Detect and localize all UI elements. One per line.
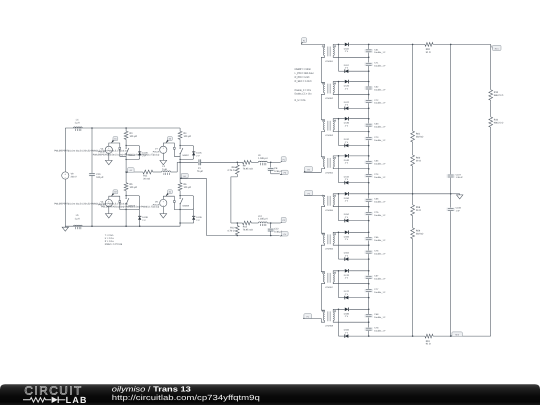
transformer T1 [322,46,336,63]
switch M6697 (upper cell) [180,146,194,160]
switch M6646 (upper cell) [126,146,140,160]
capacitor C10 [89,128,104,226]
diode D112 [339,64,350,73]
svg-text:Double_1 F: Double_1 F [374,163,386,166]
svg-text:R59: R59 [416,229,421,232]
svg-text:1 µH: 1 µH [75,122,80,125]
wire secondary top [333,194,345,197]
svg-text:R92: R92 [426,48,431,51]
svg-text:S3: S3 [114,191,116,194]
svg-text:2 V: 2 V [345,238,349,241]
wire driver to gate [109,196,126,209]
svg-text:Double_1 F: Double_1 F [374,201,386,204]
ground driver [105,153,112,164]
svg-text:NSMP = 2.80m: NSMP = 2.80m [295,68,311,71]
wire diode to bus lower [348,220,368,222]
transformer T7 [322,272,336,289]
svg-text:D140: D140 [344,159,350,162]
svg-text:P3: P3 [282,219,284,222]
gate driver source V8 [153,199,167,207]
svg-text:100 µO: 100 µO [130,186,138,189]
svg-text:LTMR57: LTMR57 [325,286,334,289]
wire bottom rail [369,335,425,337]
transformer T3 [322,120,336,137]
capacitor C75 [365,211,387,217]
switch M6698 (lower cell) [180,196,194,210]
svg-text:76 µF: 76 µF [197,170,204,173]
resistor R60 [411,155,421,166]
svg-text:D170: D170 [344,274,350,277]
wire node X down [338,156,340,183]
svg-text:2 V: 2 V [196,219,200,222]
wire driver to gate [163,143,180,156]
svg-text:P4: P4 [307,315,309,318]
node bridge output B [179,162,181,164]
wire T3-T4 primary chain [321,130,324,159]
wire secondary bottom [333,205,369,207]
flag label PRI2A [281,217,287,223]
svg-text:LTMR52: LTMR52 [325,97,334,100]
filter cap bus [450,44,452,336]
wire driver to gate [109,143,126,156]
wire secondary bottom [333,93,369,95]
capacitor C72 [365,99,387,105]
resistor R12 shunt [228,223,240,236]
wire top rail [369,43,425,45]
ground driver [160,207,167,218]
svg-text:100 µF: 100 µF [96,176,104,179]
wire leg B to lower net return [180,179,237,236]
output sense line [490,44,492,336]
svg-text:2 V: 2 V [345,200,349,203]
svg-text:N_S = 10%: N_S = 10% [295,99,307,102]
svg-text:Double_1 F: Double_1 F [374,329,386,332]
wire diode to bus lower [348,182,368,184]
svg-text:76.95 mO: 76.95 mO [243,168,253,171]
resistor R59 [411,228,424,239]
svg-text:Double_1 F: Double_1 F [374,51,386,54]
diode D142 [339,175,350,184]
svg-text:2 V: 2 V [142,219,146,222]
resistor R91 [425,334,433,345]
bus capacitor stack vertical [368,44,370,336]
svg-text:2 V: 2 V [345,277,349,280]
inductor L12 [258,215,268,226]
svg-text:P2: P2 [284,171,286,174]
resistor R33 [489,90,504,100]
wire diode to bus lower [348,297,368,299]
svg-text:Double_1 F: Double_1 F [374,278,386,281]
svg-text:D150: D150 [344,197,350,200]
svg-text:R91: R91 [426,340,431,343]
inductor L4 [74,118,83,131]
svg-text:RC1: RC1 [495,47,499,50]
svg-text:1 nF: 1 nF [456,210,461,213]
svg-text:29 O: 29 O [416,209,421,212]
svg-text:Double_1 F: Double_1 F [374,125,386,128]
wire secondary bottom [333,130,369,132]
resistor divider bus [412,44,414,336]
svg-text:Double_1 F: Double_1 F [374,176,386,179]
wire mid rail segment [179,159,181,182]
flag label RECT2 [451,332,463,337]
wire lower rail segment [179,210,181,227]
svg-text:C108: C108 [456,207,462,210]
svg-text:PWL(REPEAT(0,0.2m 10u,5 0.25m,: PWL(REPEAT(0,0.2m 10u,5 0.25m,5)+PWM(3,5… [54,202,128,205]
wire L12 to flag [267,222,280,224]
resistor R9 [243,160,253,170]
svg-text:5 µH: 5 µH [162,168,167,171]
flag label PRI1B input [304,167,313,173]
svg-text:2 V: 2 V [345,141,349,144]
svg-text:2 V: 2 V [345,293,349,296]
svg-text:Double_1 F: Double_1 F [374,239,386,242]
capacitor C76 [365,250,387,256]
wire node X down [338,119,340,146]
flag label RECT1 [491,44,501,50]
diode D10A [138,152,148,158]
resistor R92 [425,43,433,54]
svg-text:C10: C10 [96,173,101,176]
resistor R5 [124,183,137,196]
wire secondary bottom [333,321,369,323]
gate driver source V7 [153,146,167,154]
svg-text:D142: D142 [344,175,350,178]
svg-text:D180: D180 [344,312,350,315]
svg-text:76.95 mO: 76.95 mO [243,228,253,231]
resistor R58 [411,205,421,216]
ground driver [105,207,112,218]
capacitor C1 [197,159,204,173]
diode D162 [339,252,350,261]
wire T2-T3 primary chain [321,93,324,122]
svg-text:2 V: 2 V [345,315,349,318]
wire secondary top [333,271,345,274]
capacitor C66 [365,236,387,242]
svg-text:LTMR58: LTMR58 [325,325,334,328]
svg-text:P2: P2 [307,168,309,171]
svg-text:PWL(REPEAT(0,0.2m 10u,5 0.25m,: PWL(REPEAT(0,0.2m 10u,5 0.25m,5)+PWM(3,5… [54,149,128,152]
diode D170 [344,269,350,280]
svg-text:R58: R58 [416,206,421,209]
svg-text:D10D: D10D [196,216,202,219]
svg-text:R_SEC = 0.01O: R_SEC = 0.01O [295,80,312,83]
svg-text:LAB: LAB [66,395,88,405]
diode D120 [344,80,350,91]
svg-text:2 V: 2 V [345,162,349,165]
svg-text:240 V: 240 V [71,176,77,179]
wire lower net top [231,222,243,224]
svg-text:R33: R33 [494,91,499,94]
svg-text:Double_1 F: Double_1 F [374,316,386,319]
flag label OUTA on leg A [126,168,134,173]
svg-text:Double_1 F: Double_1 F [374,252,386,255]
wire diode to bus [349,270,369,272]
svg-text:0.76 O: 0.76 O [228,230,235,233]
svg-text:P1: P1 [282,159,284,162]
wire R9 to L9 [251,161,258,163]
svg-text:20 mO: 20 mO [143,178,150,181]
svg-text:M6697: M6697 [183,154,190,157]
capacitor C63 [365,123,387,129]
svg-text:LTMR55: LTMR55 [325,209,334,212]
svg-text:1 µH: 1 µH [75,217,80,220]
wire diode to bus lower [348,335,368,337]
svg-text:D110: D110 [344,47,350,50]
wire diode to bus [349,193,369,195]
wire diode to bus [349,118,369,120]
svg-text:C12: C12 [274,228,279,231]
diode D140 [344,154,350,165]
wire secondary top [333,309,345,312]
flag label S4 [166,190,173,197]
diode D130 [344,117,350,128]
svg-text:Double_CC = 10u: Double_CC = 10u [295,93,312,96]
svg-text:D112: D112 [344,64,350,67]
svg-text:100 µO: 100 µO [130,135,138,138]
svg-text:Double_1 F: Double_1 F [374,139,386,142]
svg-text:S4: S4 [169,191,171,194]
svg-text:RC2: RC2 [455,333,459,336]
flag label PRI2B input [303,314,311,319]
svg-text:PWL(REPEAT(0,0.5m)+PWM(3,0.5m): PWL(REPEAT(0,0.5m)+PWM(3,0.5m)+PWM(4,1 T… [101,206,159,209]
svg-text:D10B: D10B [142,216,148,219]
svg-text:91 O: 91 O [426,51,431,54]
wire mid rail segment [125,159,127,182]
wire diode to bus lower [348,107,368,109]
diode D160 [344,231,350,242]
svg-text:D152: D152 [344,213,350,216]
wire lower net bottom rail [237,235,279,237]
wire R8 to lower net [231,177,237,223]
wire top rail of bridge [65,127,180,129]
svg-text:PWL(R: PWL(R [153,150,160,153]
wire node X down [338,232,340,259]
svg-text:0.76 O: 0.76 O [228,169,235,172]
wire diode to bus [349,43,369,45]
resistor R4 [178,128,191,146]
wire diode to bus [349,155,369,157]
diode D10B [138,210,148,227]
svg-text:2 V: 2 V [196,154,200,157]
svg-text:282 kO: 282 kO [416,135,424,138]
svg-text:D122: D122 [344,101,350,104]
wire node X down [338,82,340,109]
flag label S1 [111,137,118,144]
svg-text:R61: R61 [416,132,421,135]
capacitor C8 shunt [267,162,283,174]
wire top rail right [433,43,491,45]
svg-text:2 V: 2 V [345,254,349,257]
capacitor C71 [365,62,387,68]
simulation parameter text block [105,234,123,246]
capacitor C12 shunt [267,223,283,236]
svg-text:100 µO: 100 µO [184,186,192,189]
wire T4 primary to flag [304,167,325,172]
transformer T6 [322,234,336,251]
resistor R34 [489,117,504,127]
svg-text:P3: P3 [308,192,310,195]
svg-text:29 O: 29 O [416,159,421,162]
svg-text:P1: P1 [303,39,305,42]
svg-text:R_PRI = 1mO: R_PRI = 1mO [295,76,310,79]
wire flag to T5 primary [304,195,325,196]
transformer T4 [322,157,336,174]
capacitor C68 [365,313,387,319]
svg-text:Double_C = 1Fa: Double_C = 1Fa [295,89,312,92]
diode D182 [339,329,350,338]
switch M6648 (lower cell) [126,196,140,210]
flag label PRI1B [280,170,288,175]
wire secondary top [333,82,345,85]
svg-text:S1: S1 [114,137,116,140]
resistor R11 [143,170,153,181]
logo schematic resistor-diode [23,397,65,403]
wire node X down [338,309,340,336]
wire secondary top [333,44,345,47]
wire flag to T1 primary [301,44,325,47]
svg-text:M6698: M6698 [183,204,190,207]
diode D110 [344,43,350,54]
svg-text:http://circuitlab.com/cp734yff: http://circuitlab.com/cp734yffqtm9q [112,393,260,402]
svg-text:2 V: 2 V [345,67,349,70]
wire node X down [338,194,340,221]
svg-text:D132: D132 [344,138,350,141]
svg-text:Double_1 F: Double_1 F [374,214,386,217]
transformer T5 [322,195,336,212]
capacitor C73 [365,136,387,142]
wire T7-T8 primary chain [321,282,324,312]
capacitor C61 [365,48,387,54]
diode D122 [339,101,350,110]
svg-text:986.21 O: 986.21 O [494,121,504,124]
diode D10C [192,152,202,158]
svg-text:A1: A1 [130,169,132,172]
wire T6-T7 primary chain [321,244,324,274]
wire diode to bus [349,231,369,233]
wire driver to gate [163,196,180,209]
wire secondary bottom [333,56,369,58]
inductor L3 [162,165,171,175]
ground driver [160,153,167,164]
wire bottom rail of bridge [65,225,180,227]
wire diode to bus [349,81,369,83]
svg-text:B1: B1 [184,175,186,178]
svg-text:Double_1 F: Double_1 F [374,291,386,294]
svg-text:2 V: 2 V [345,50,349,53]
transformer T8 [322,311,336,328]
svg-text:2 V: 2 V [345,216,349,219]
inductor L5 [74,214,83,229]
capacitor C65 [365,198,387,204]
capacitor C108 [447,207,462,213]
wire node X down [338,271,340,298]
flag label S3 [111,190,118,197]
svg-text:D182: D182 [344,329,350,332]
svg-text:2 V: 2 V [345,104,349,107]
wire L9 to flag [267,161,280,163]
wire node X down [338,44,340,71]
capacitor C78 [365,327,387,333]
wire R13 to L12 [251,222,258,224]
wire mid rail [369,193,451,195]
svg-text:Double_1 F: Double_1 F [374,102,386,105]
voltage source V9 [62,128,77,226]
svg-text:282 kO: 282 kO [416,232,424,235]
svg-text:Double_1 F: Double_1 F [374,88,386,91]
resistor R3 [124,128,137,146]
diode D10D [179,210,202,224]
wire secondary top [333,119,345,122]
wire secondary top [333,232,345,235]
capacitor C64 [365,160,387,166]
wire C1 to R9 [201,161,243,163]
svg-text:R34: R34 [494,118,499,121]
svg-text:LTMR56: LTMR56 [325,248,334,251]
svg-text:R60: R60 [416,156,421,159]
svg-text:P4: P4 [284,233,286,236]
wire diode to bus lower [348,258,368,260]
flag label PRI1A [281,157,287,163]
svg-text:LTMR53: LTMR53 [325,134,334,137]
svg-text:D172: D172 [344,290,350,293]
svg-text:91 O: 91 O [426,343,431,346]
svg-text:PWL(REPEAT(0,0.5m,5 0.2m)+PWM(: PWL(REPEAT(0,0.5m,5 0.2m)+PWM(3,5,0.5m)+… [93,153,160,156]
diode D180 [344,308,350,319]
svg-text:C107: C107 [456,173,462,176]
svg-text:D120: D120 [344,85,350,88]
svg-text:1.185 µH: 1.185 µH [258,157,268,160]
svg-text:2 V: 2 V [345,331,349,334]
svg-text:2 V: 2 V [345,87,349,90]
flag label PRI2B [280,232,288,237]
svg-text:1.36 nF: 1.36 nF [456,176,464,179]
svg-text:LTMR51: LTMR51 [325,60,334,63]
svg-text:100 µO: 100 µO [184,135,192,138]
diode D152 [339,213,350,222]
wire T5-T6 primary chain [321,205,324,235]
wire diode to bus lower [348,70,368,72]
svg-text:D130: D130 [344,122,350,125]
transformer T2 [322,83,336,100]
diode D132 [339,138,350,147]
svg-text:LTMR54: LTMR54 [325,171,334,174]
svg-text:986.21 O: 986.21 O [494,94,504,97]
resistor R8 shunt [228,162,240,177]
svg-text:PWM = T/2*0.98: PWM = T/2*0.98 [105,243,123,246]
gate driver source V5 [98,146,112,154]
svg-text:R12: R12 [230,227,235,230]
diode D172 [339,290,350,299]
wire diode to bus lower [348,145,368,147]
svg-text:D162: D162 [344,252,350,255]
svg-text:D160: D160 [344,235,350,238]
capacitor C74 [365,173,387,179]
wire diode to bus [349,308,369,310]
wire T1-T2 primary chain [321,56,324,85]
resistor R13 [243,221,253,231]
resistor R6 [178,183,191,196]
flag label PRI1A input [301,38,307,45]
svg-text:Double_1 F: Double_1 F [374,65,386,68]
wire secondary top [333,156,345,159]
resistor R61 [411,131,424,142]
svg-text:2 V: 2 V [345,178,349,181]
flag label PRI2A input [304,191,313,196]
wire bridge to C1 [180,161,198,163]
flag label S2 [166,137,173,144]
diode D150 [344,192,350,203]
